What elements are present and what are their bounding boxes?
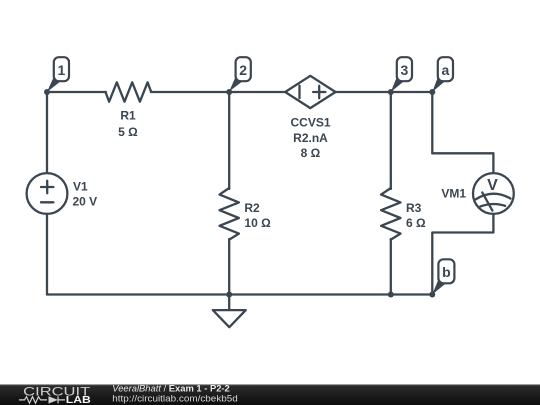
svg-text:R1: R1 <box>120 108 136 122</box>
node label 3 <box>391 57 412 92</box>
wire node1 to R1 <box>47 91 106 93</box>
svg-text:a: a <box>442 62 450 78</box>
wire CCVS1 to node3 <box>336 91 391 93</box>
junction node 2 <box>226 89 232 95</box>
svg-text:8 Ω: 8 Ω <box>301 146 321 160</box>
junction ground <box>226 292 232 298</box>
svg-text:LAB: LAB <box>66 395 91 405</box>
svg-text:3: 3 <box>401 62 409 78</box>
wire voltmeter bottom to node b <box>432 214 493 295</box>
wire left rail bottom <box>46 214 48 295</box>
svg-text:R2: R2 <box>244 201 260 215</box>
node label b <box>432 259 454 294</box>
ground <box>213 295 246 328</box>
svg-text:1: 1 <box>58 62 66 78</box>
svg-text:http://circuitlab.com/cbekb5d: http://circuitlab.com/cbekb5d <box>112 393 238 404</box>
resistor R1 <box>106 82 152 101</box>
svg-text:CCVS1: CCVS1 <box>290 116 330 130</box>
svg-text:20 V: 20 V <box>73 195 98 209</box>
voltmeter VM1 <box>473 173 514 214</box>
wire R2 to bottom rail <box>228 239 230 295</box>
wire node a to voltmeter top <box>432 153 493 173</box>
svg-text:R3: R3 <box>406 201 422 215</box>
wire node3 down to R3 <box>390 92 392 189</box>
wire bottom rail <box>47 293 432 295</box>
junction node a <box>429 89 435 95</box>
junction node 3 <box>388 89 394 95</box>
wire R1 to node2 <box>151 91 229 93</box>
wire left rail top <box>46 92 48 173</box>
svg-text:6 Ω: 6 Ω <box>406 216 426 230</box>
svg-text:2: 2 <box>239 62 247 78</box>
wire node2 down to R2 <box>228 92 230 189</box>
wire node2 to CCVS1 <box>229 91 285 93</box>
junction node b <box>429 292 435 298</box>
wire node a down <box>431 92 433 153</box>
junction R3 bottom <box>388 292 394 298</box>
voltage source V1 <box>27 173 68 214</box>
CircuitLab logo symbol <box>19 396 65 403</box>
svg-text:b: b <box>442 264 451 280</box>
svg-text:V: V <box>487 177 498 194</box>
node label 2 <box>229 57 251 91</box>
wire R3 to bottom rail <box>390 239 392 295</box>
wire node3 to node a <box>391 91 433 93</box>
svg-text:10 Ω: 10 Ω <box>244 216 271 230</box>
svg-text:V1: V1 <box>73 179 88 193</box>
svg-text:R2.nA: R2.nA <box>293 131 328 145</box>
dependent source CCVS1 <box>285 76 335 108</box>
resistor R2 <box>220 188 239 240</box>
node label a <box>432 57 453 92</box>
junction node 1 <box>44 89 50 95</box>
node label 1 <box>47 57 69 92</box>
footer bar <box>0 385 540 405</box>
resistor R3 <box>381 188 400 240</box>
svg-text:VM1: VM1 <box>441 187 466 201</box>
svg-text:5 Ω: 5 Ω <box>118 125 138 139</box>
